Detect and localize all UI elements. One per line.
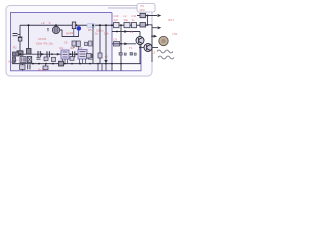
svg-text:C11: C11 — [132, 14, 137, 18]
signal wire mid — [20, 53, 61, 55]
node y43.8 — [120, 43, 122, 45]
arrow on wire — [57, 53, 60, 56]
IC1 inner marks — [63, 52, 68, 57]
svg-text:4p7: 4p7 — [114, 18, 119, 22]
T2 emitter collector — [147, 45, 151, 51]
wire T1 down — [139, 45, 141, 64]
cap circle stripes — [55, 26, 58, 33]
resistor R1 on x20 — [17, 51, 23, 55]
T1 emitter collector — [139, 38, 143, 44]
svg-text:T1: T1 — [129, 46, 133, 50]
microphone M1 — [13, 52, 19, 56]
mic symbol bars — [13, 34, 18, 36]
arrow y43.8 — [124, 42, 128, 45]
svg-text:100n 47k 10u: 100n 47k 10u — [36, 42, 53, 46]
svg-text:D4: D4 — [70, 31, 74, 35]
top rail — [20, 24, 148, 26]
node T2 base — [139, 47, 141, 49]
switch S1 on rail — [72, 22, 75, 29]
wire x28 drop — [28, 25, 30, 48]
svg-text:P1: P1 — [130, 30, 134, 34]
resistor marks x37 — [37, 58, 41, 60]
transistor T2 — [144, 44, 152, 52]
svg-text:R3: R3 — [43, 37, 47, 41]
svg-text:C6: C6 — [64, 41, 68, 45]
wire T1 top — [139, 32, 141, 37]
cap box right1 — [114, 23, 120, 28]
LED lead — [78, 30, 80, 34]
diode D1 top — [140, 13, 146, 17]
plus mark — [47, 28, 49, 29]
cap bars low left — [38, 51, 40, 57]
capacitor C2 bars — [47, 51, 49, 57]
capacitor box x116 — [114, 42, 120, 47]
diode D3 on x20 — [18, 37, 22, 41]
node cap top — [55, 24, 57, 26]
wire IC1 to C3 — [69, 53, 78, 55]
wire from box to x93 — [89, 58, 94, 59]
node x20 wire — [19, 53, 21, 55]
small box mid1 — [72, 41, 76, 46]
stub box2 to IC2 — [74, 47, 78, 50]
component on rail x60 — [59, 61, 64, 66]
wire D1 — [137, 15, 157, 17]
small box mid4 — [89, 41, 93, 46]
sound wave 1 — [157, 50, 173, 53]
verticals mid-right — [93, 25, 106, 63]
svg-text:9600: 9600 — [140, 9, 146, 12]
resistor R2 vertical — [27, 49, 32, 55]
small box mid3 — [85, 42, 88, 45]
IC1 pin stubs — [63, 59, 68, 64]
svg-text:R2: R2 — [13, 46, 17, 50]
wire cap down to led wire — [60, 30, 79, 37]
svg-text:TP1: TP1 — [140, 5, 145, 8]
node x76 — [75, 24, 77, 26]
box x20 inner bars — [22, 58, 25, 62]
capacitor marks x124 — [124, 53, 126, 55]
component on x100 — [98, 53, 102, 58]
sound wave 2 — [158, 56, 174, 59]
background — [0, 0, 180, 82]
wire into speaker — [152, 35, 154, 37]
svg-text:+9: +9 — [41, 21, 45, 25]
outer frame — [6, 6, 152, 77]
node x121 — [120, 24, 122, 26]
marks under driver box2 — [134, 53, 136, 55]
small cap x70 — [70, 57, 74, 61]
wire T2 to speaker — [152, 47, 158, 49]
svg-text:R4: R4 — [66, 32, 70, 36]
mic stripes — [14, 52, 17, 56]
svg-text:0v 22u: 0v 22u — [38, 67, 47, 71]
LED blue — [77, 26, 82, 31]
T2 base bar — [146, 45, 148, 50]
IC1 box — [61, 50, 69, 59]
bottom rail — [12, 63, 141, 65]
svg-text:10k: 10k — [104, 32, 109, 36]
capacitor C3 bars — [73, 51, 75, 57]
antenna wire — [108, 7, 137, 9]
wire mic to x20 — [18, 34, 21, 36]
svg-text:33p: 33p — [124, 18, 129, 22]
wire d2 arrow — [148, 25, 158, 62]
small box mid2 — [76, 41, 80, 47]
wire left drop — [19, 25, 21, 54]
svg-text:R5: R5 — [88, 28, 92, 32]
speaker earpiece — [159, 36, 168, 45]
cap circle electrolytic — [52, 26, 59, 33]
diode D2 — [140, 23, 146, 27]
svg-text:LS1: LS1 — [173, 32, 178, 36]
down arrow x106 — [104, 60, 107, 63]
terminal marks left — [12, 61, 15, 63]
arrow out 1 — [158, 14, 162, 17]
diode x44 — [44, 57, 48, 61]
arrow speaker — [154, 35, 158, 38]
wire y43.8 — [112, 43, 136, 45]
wire T2 base — [140, 47, 144, 49]
node x52 — [51, 53, 53, 55]
node y31.5 — [116, 31, 118, 33]
IC2 box — [78, 50, 87, 60]
node x152 y36 — [151, 35, 153, 37]
R6 stripes — [13, 59, 16, 61]
switch lead down — [73, 29, 75, 37]
node d1 — [147, 15, 149, 17]
capacitor C12 under IC — [52, 57, 56, 61]
pot X marks — [27, 57, 31, 63]
faint blue label — [87, 24, 95, 28]
T1 base bar — [138, 38, 140, 43]
svg-text:C5: C5 — [38, 37, 42, 41]
arrow y31.5 — [124, 30, 128, 33]
bottom rail nodes — [32, 63, 34, 65]
wire IC2 out — [87, 54, 92, 58]
schematic box border — [11, 13, 142, 71]
wire y31.5 — [112, 31, 140, 33]
svg-text:LS: LS — [152, 51, 156, 55]
component on x87 — [87, 54, 92, 59]
arrow out 2 — [158, 26, 162, 29]
schematic box interior — [11, 13, 113, 71]
svg-text:C9: C9 — [114, 38, 118, 42]
diode triangle on wire x42 — [41, 53, 44, 56]
nodes rail mid — [92, 24, 94, 26]
transistor T1 — [136, 37, 144, 45]
svg-text:V.: V. — [49, 21, 52, 25]
vertical x121 — [120, 25, 122, 71]
box below rail mid — [43, 66, 48, 70]
resistor R6 vertical striped — [13, 57, 16, 62]
cap bars below rail — [28, 64, 30, 69]
marks under driver box — [130, 53, 133, 56]
verticals to ground bar — [23, 64, 122, 71]
svg-text:C10: C10 — [114, 14, 119, 18]
resistor marks under y44 wire — [119, 53, 122, 56]
node d2 — [147, 24, 149, 26]
node on rail x28 — [28, 24, 30, 26]
wire link d1 d2 — [147, 16, 149, 25]
pot box left — [27, 57, 31, 63]
svg-text:IC1: IC1 — [59, 46, 64, 50]
IC2 pin stubs — [80, 59, 86, 64]
label box TP — [137, 4, 155, 13]
IC2 inner marks — [80, 52, 86, 57]
svg-text:+9: +9 — [105, 55, 109, 59]
cap box right2 — [124, 23, 130, 28]
node wire x70 — [70, 53, 72, 55]
cap box right3 — [132, 23, 137, 28]
speaker inner — [161, 39, 165, 43]
svg-text:OUT: OUT — [168, 18, 174, 22]
box x20 low — [20, 57, 26, 63]
box below rail — [20, 65, 26, 70]
node wire x76.5 — [76, 53, 78, 55]
